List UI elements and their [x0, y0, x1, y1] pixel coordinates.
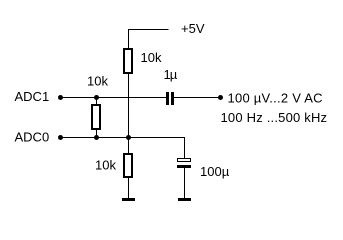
wire ADC0 horizontal: [61, 137, 186, 139]
wire capacitor C2 branch vertical upper: [184, 137, 186, 159]
svg-text:10k: 10k: [141, 50, 162, 65]
svg-text:ADC0: ADC0: [15, 130, 50, 145]
wire ADC1 horizontal left segment: [61, 97, 167, 99]
capacitor C1 1u left plate: [166, 92, 169, 105]
node junction dot R2 top on ADC1 line: [94, 95, 99, 100]
resistor R2 10k (between ADC1 and ADC0 lines): [91, 104, 101, 130]
wire middle vertical (ADC1 line to ADC0 line through R2): [96, 98, 98, 138]
node ADC1 terminal dot: [58, 95, 63, 100]
svg-text:1µ: 1µ: [164, 67, 178, 82]
wire +5V rail horizontal: [128, 29, 169, 31]
svg-text:+5V: +5V: [181, 21, 205, 36]
resistor R1 10k (from +5V to ADC1 node): [123, 48, 133, 74]
svg-text:ADC1: ADC1: [15, 89, 50, 104]
svg-text:100µ: 100µ: [200, 164, 230, 179]
node junction dot main vertical on ADC0 line: [126, 135, 131, 140]
capacitor C1 1u right plate: [171, 92, 174, 105]
ground (below R3): [122, 198, 135, 201]
wire capacitor C2 branch vertical lower: [184, 167, 186, 198]
svg-text:10k: 10k: [87, 74, 108, 89]
ground (below C2): [178, 198, 191, 201]
svg-text:10k: 10k: [95, 158, 116, 173]
resistor R3 10k (ADC0 line to ground): [123, 153, 133, 178]
capacitor C2 100u top plate (hollow, positive): [177, 158, 191, 162]
svg-text:100 Hz ...500 kHz: 100 Hz ...500 kHz: [221, 110, 328, 125]
node ADC0 terminal dot: [58, 135, 63, 140]
node junction dot R2 bottom on ADC0 line: [94, 135, 99, 140]
node output terminal dot: [218, 95, 223, 100]
svg-text:100 µV...2 V AC: 100 µV...2 V AC: [228, 91, 323, 106]
wire ADC1 horizontal right segment (capacitor to output): [174, 97, 221, 99]
capacitor C2 100u bottom plate (solid): [177, 165, 191, 168]
wire main vertical (from +5V corner down to bottom ground): [128, 29, 130, 198]
